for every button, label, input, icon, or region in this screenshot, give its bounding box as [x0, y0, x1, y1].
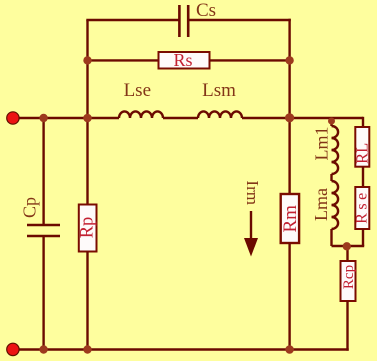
- wire Cs branch top right: [188, 19, 291, 21]
- wire Rm branch lower: [288, 243, 290, 350]
- terminal bottom-left: [7, 343, 19, 355]
- resistor RL: [355, 127, 369, 167]
- wire between RL and Rse: [362, 167, 364, 187]
- junction node at Cp tap top: [39, 114, 47, 122]
- svg-text:Rp: Rp: [78, 217, 98, 239]
- junction node at Cp tap bottom: [39, 345, 47, 353]
- wire RL branch top: [362, 117, 364, 127]
- wire Rp branch lower: [86, 252, 88, 350]
- wire between Lse and Lsm: [163, 117, 198, 119]
- svg-text:Cp: Cp: [19, 197, 39, 218]
- wire main rail to right corner: [242, 117, 363, 119]
- current arrow Irm: [244, 211, 258, 257]
- wire Rcp branch upper: [346, 246, 348, 261]
- junction node at Rs branch right: [285, 56, 293, 64]
- junction node at Lm1 top: [328, 118, 335, 125]
- svg-text:Cs: Cs: [196, 0, 216, 21]
- svg-text:Lma: Lma: [311, 188, 331, 221]
- inductor Lma: [332, 181, 339, 229]
- svg-text:Rs: Rs: [173, 50, 192, 70]
- junction node at Rs branch left: [83, 56, 91, 64]
- junction node main at Rm top: [285, 113, 294, 122]
- resistor Rp: [79, 205, 97, 252]
- wire Cp branch lower: [42, 236, 44, 350]
- wire Rm branch upper: [288, 118, 290, 194]
- wire Cs branch top left: [86, 19, 179, 21]
- resistor Rse: [355, 187, 369, 229]
- svg-text:Lsm: Lsm: [202, 80, 236, 101]
- capacitor Cp: [27, 225, 60, 236]
- wire Rcp branch lower: [346, 301, 348, 351]
- svg-text:Lse: Lse: [124, 80, 151, 101]
- terminal top-left: [7, 112, 19, 124]
- capacitor Cs: [179, 5, 188, 37]
- resistor Rs: [159, 52, 210, 69]
- resistor Rm: [281, 194, 299, 243]
- svg-text:Rm: Rm: [280, 205, 301, 233]
- wire Lma bottom stub: [330, 229, 332, 246]
- svg-text:Irm: Irm: [243, 180, 262, 205]
- junction node at Rm bottom: [285, 345, 294, 354]
- wire Rp branch upper: [86, 118, 88, 205]
- inductor Lse: [119, 111, 163, 118]
- junction node at Rp tap bottom: [83, 345, 91, 353]
- junction node at Rcp top: [343, 242, 351, 250]
- svg-text:Rse: Rse: [354, 189, 371, 224]
- wire between Lm1 and Lma: [330, 174, 332, 181]
- wire upper loop left vertical: [86, 20, 88, 118]
- wire bottom connector of motional branches: [332, 245, 365, 247]
- wire upper loop right vertical: [288, 19, 290, 118]
- wire Rs branch right: [210, 59, 290, 61]
- svg-text:Rcp: Rcp: [341, 265, 357, 289]
- wire bottom rail: [13, 348, 349, 350]
- inductor Lsm: [198, 111, 242, 118]
- wire Rs branch left: [88, 59, 159, 61]
- svg-text:RL: RL: [353, 143, 372, 164]
- wire Cp branch upper: [42, 118, 44, 225]
- resistor Rcp: [341, 261, 356, 301]
- wire top input rail y=118: [13, 117, 119, 119]
- junction node at Rp tap top: [83, 114, 92, 123]
- wire Lm1 branch top stub: [330, 118, 332, 126]
- inductor Lm1: [332, 126, 339, 174]
- svg-text:Lm1: Lm1: [312, 127, 332, 161]
- wire Rse bottom: [362, 229, 364, 246]
